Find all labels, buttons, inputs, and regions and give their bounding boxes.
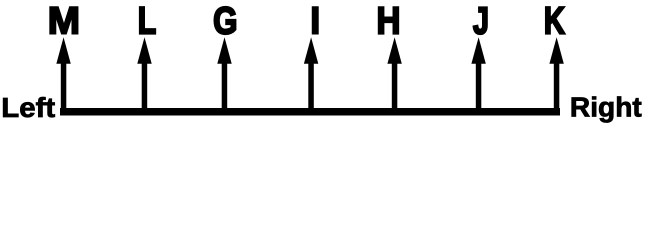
svg-text:J: J (473, 1, 489, 43)
svg-text:I: I (310, 0, 320, 42)
svg-text:M: M (48, 0, 80, 42)
svg-text:L: L (138, 1, 156, 43)
svg-text:G: G (213, 1, 237, 42)
svg-text:Right: Right (570, 91, 642, 122)
svg-text:H: H (377, 0, 401, 42)
svg-text:K: K (544, 0, 566, 43)
svg-text:Left: Left (1, 93, 55, 124)
